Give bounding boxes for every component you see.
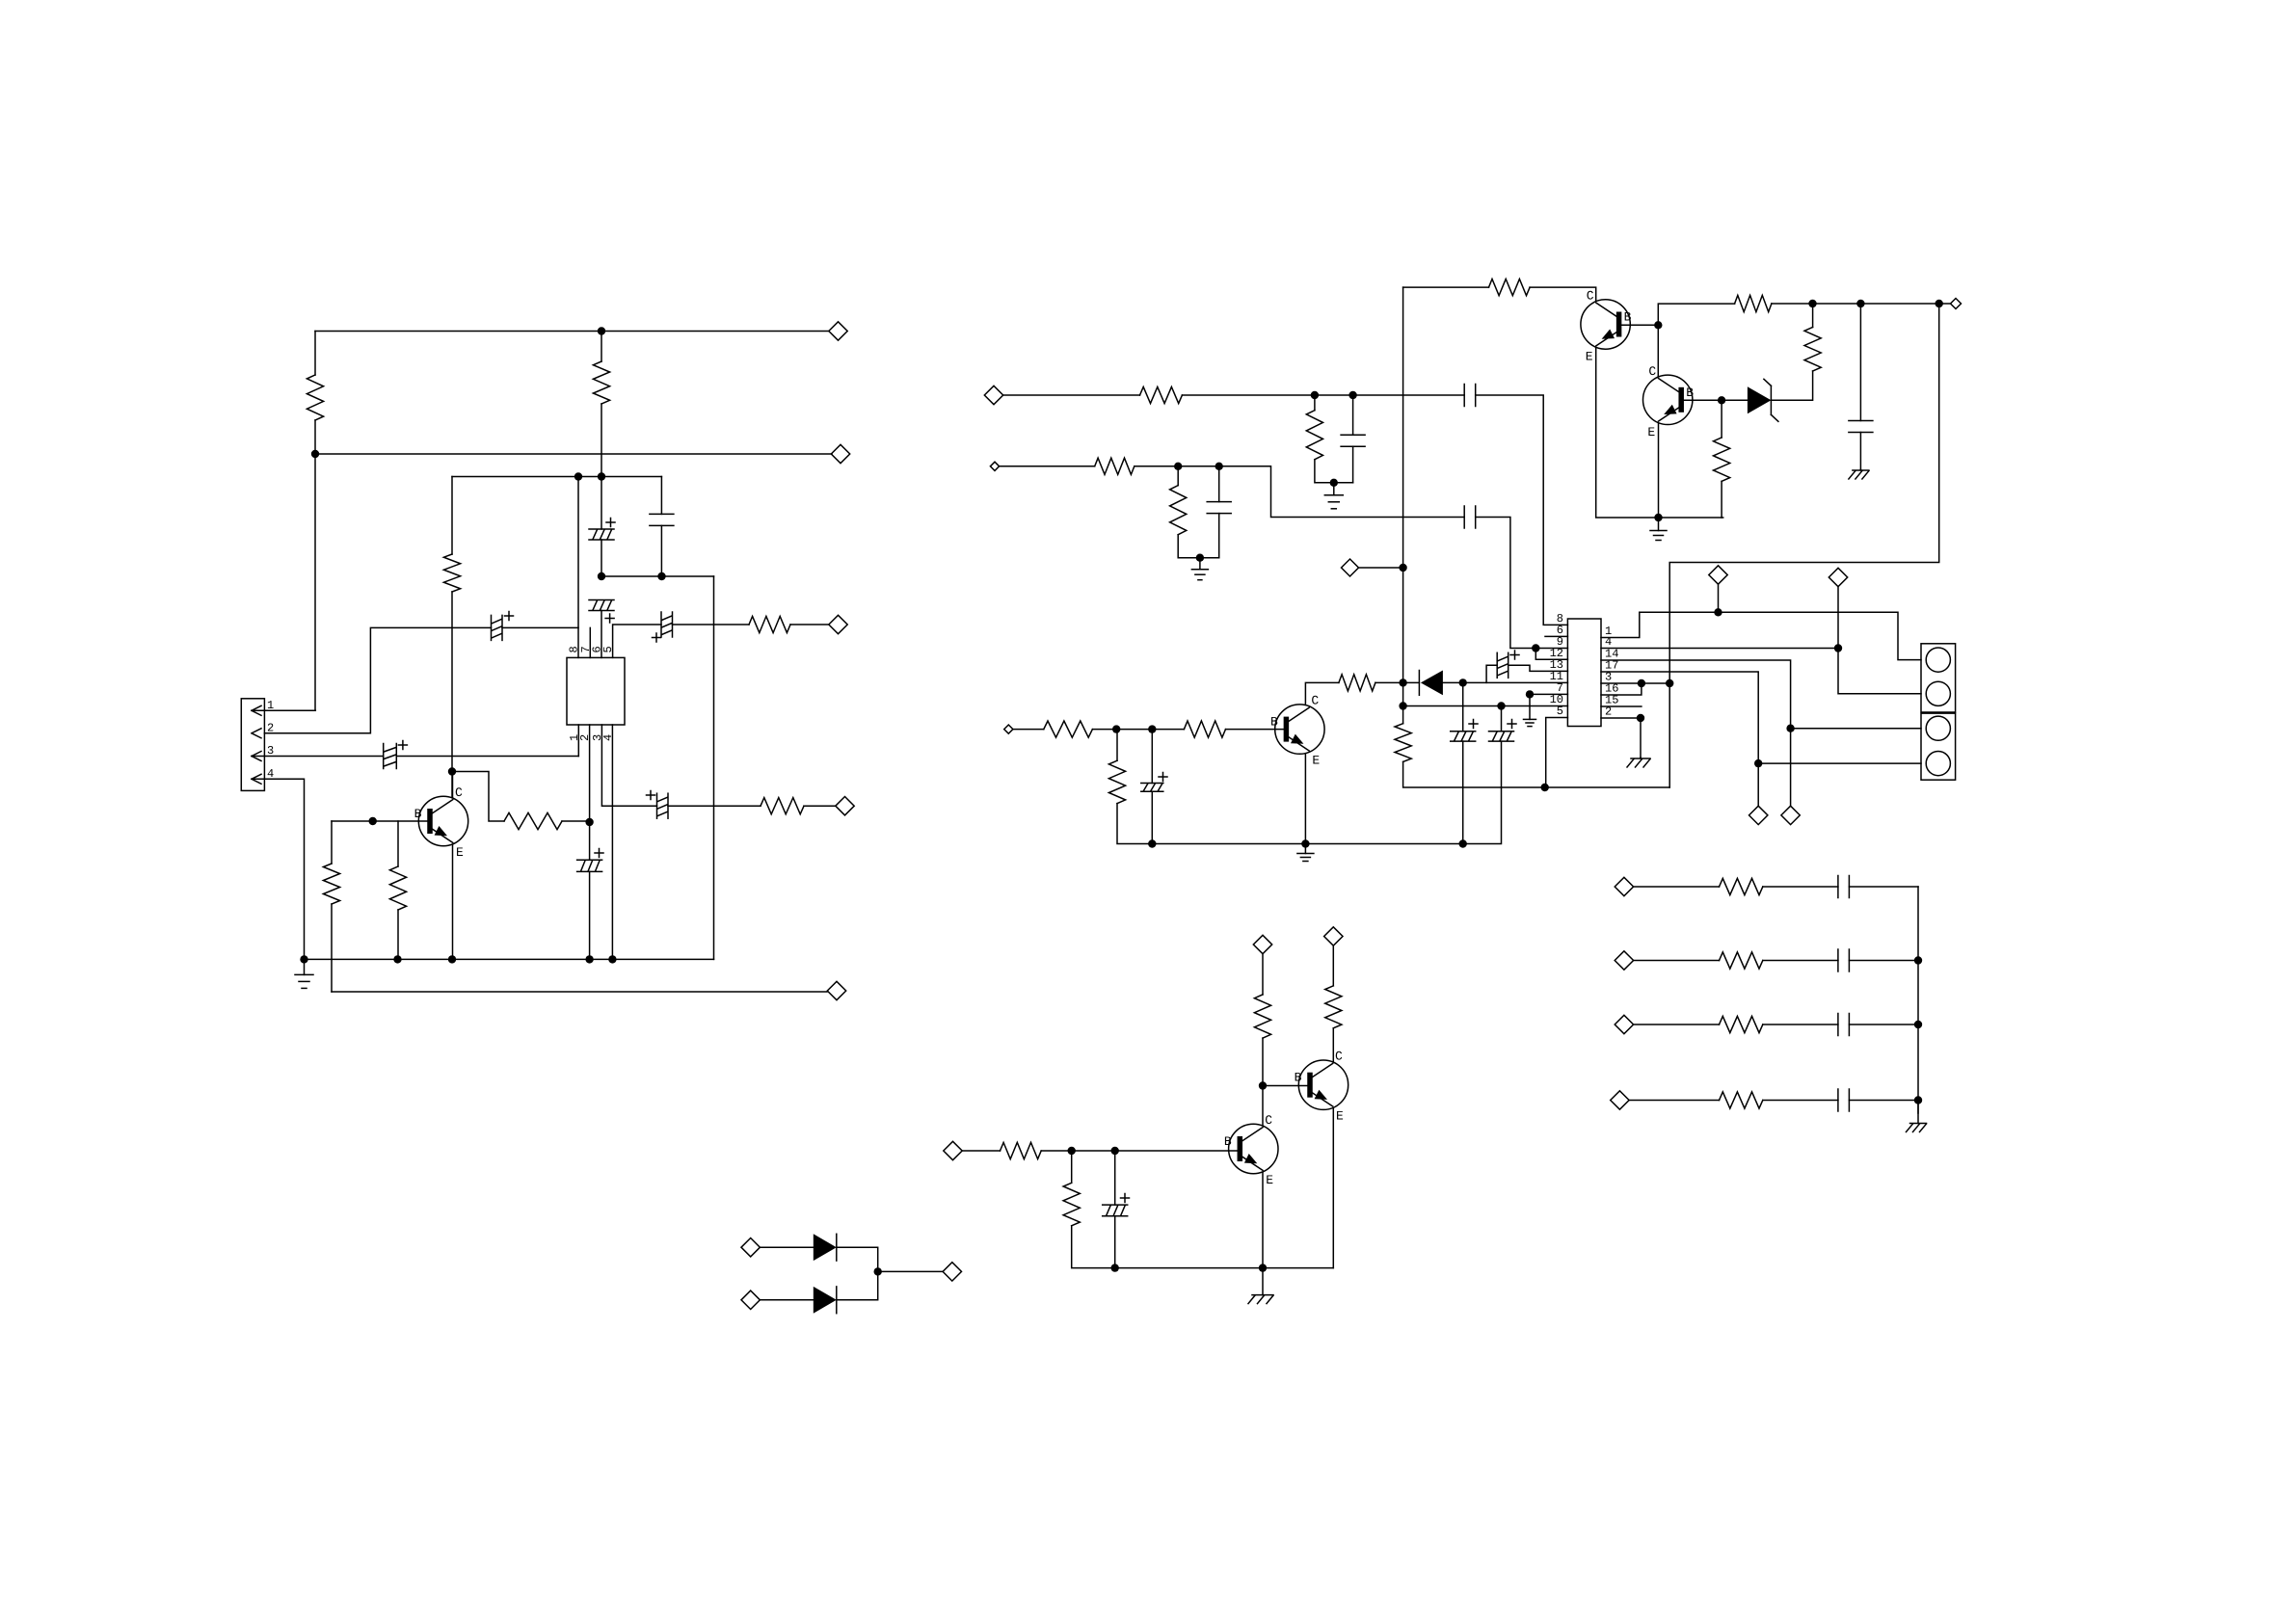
- ground (earth style): [1248, 1268, 1273, 1304]
- resistor R7: [323, 864, 339, 904]
- wire C4 to U1 pin6: [601, 611, 602, 658]
- junction supply / pin3 row: [1666, 679, 1673, 687]
- wire input A: [1003, 394, 1140, 396]
- wire node B to ground rail: [713, 576, 715, 959]
- resistor R19: [1184, 721, 1225, 737]
- junction ground rail / Q1 emitter: [448, 955, 456, 963]
- svg-text:B: B: [1270, 715, 1278, 730]
- junction top rail / R16: [1808, 300, 1816, 307]
- wire: [314, 332, 316, 376]
- resistor R15: [1735, 295, 1772, 311]
- resistor R13: [1395, 724, 1411, 762]
- wire U2 pin16 jog: [1601, 683, 1642, 695]
- wire diamond C: [1359, 567, 1403, 569]
- wire Q3 collector lead: [1657, 325, 1659, 376]
- wire C13 lead: [1859, 304, 1861, 421]
- junction node A: [598, 472, 605, 480]
- junction Q2 base / Q3 collector: [1654, 321, 1662, 329]
- ground: [295, 959, 313, 988]
- resistor R23: [1063, 1183, 1080, 1226]
- junction diode output: [874, 1267, 882, 1275]
- wire node A rail: [452, 476, 661, 478]
- wire R6 to diamond: [804, 805, 836, 807]
- svg-text:C: C: [1265, 1113, 1272, 1128]
- wire C14 to pin11 row: [1486, 665, 1497, 682]
- wire Q2 base: [1618, 324, 1658, 326]
- wire Q2 collector rail: [1403, 286, 1489, 288]
- wire Q5 emitter to bottom rail: [1332, 1108, 1334, 1267]
- wire: [1262, 1038, 1264, 1085]
- ground: [1191, 558, 1208, 580]
- J1 pin 2 arrow: [252, 729, 261, 738]
- resistor R16: [1804, 328, 1821, 372]
- wire C6 to connector pin3: [252, 756, 384, 758]
- junction Q1 collector node: [448, 767, 456, 775]
- capacitor C14 (polarized): [1497, 651, 1519, 678]
- junction pin2 line / R4: [585, 818, 593, 826]
- off-page connector (diamond) diode output: [943, 1263, 961, 1281]
- IC U2 (17-pin body): [1567, 619, 1601, 727]
- wire: [1177, 466, 1179, 486]
- resistor R24: [1254, 995, 1270, 1038]
- resistor R6: [761, 798, 804, 814]
- wire C16 top lead: [1501, 706, 1503, 732]
- off-page connector (diamond) pin17: [1749, 806, 1768, 824]
- off-page connector (diamond) pin14: [1781, 806, 1800, 824]
- off-page connector (small diamond) input C: [1004, 725, 1013, 733]
- wire Q4 collector to Q5 base: [1263, 1085, 1310, 1087]
- junction node B / C1: [657, 572, 665, 580]
- wire diode join: [837, 1247, 877, 1300]
- svg-text:C: C: [455, 785, 463, 800]
- junction Q3 base / zener: [1718, 396, 1725, 404]
- wire: [451, 477, 453, 555]
- junction RC ground node B: [1196, 554, 1204, 562]
- resistor R22: [1001, 1142, 1042, 1158]
- wire Q1 collector lead: [452, 772, 454, 798]
- wire: [1721, 400, 1722, 438]
- transistor Q1: [418, 796, 467, 845]
- capacitor C6 (polarized): [384, 741, 408, 769]
- off-page connector (diamond) bottom of left block: [827, 981, 845, 999]
- junction ground rail / C7: [585, 955, 593, 963]
- wire R7 to bottom rail: [331, 904, 333, 992]
- wire: [331, 821, 333, 864]
- wire U2 pin14 riser: [1601, 660, 1791, 806]
- svg-text:3: 3: [267, 744, 274, 758]
- ground: [1650, 518, 1667, 541]
- capacitor C16 (polarized): [1489, 720, 1517, 742]
- wire: [601, 332, 602, 362]
- wire diode output: [878, 1270, 943, 1272]
- wire supply riser right: [1669, 304, 1939, 787]
- wire: [1763, 1024, 1838, 1025]
- resistor R27: [1720, 952, 1763, 969]
- wire Q6 base: [1226, 729, 1287, 731]
- resistor R8: [389, 866, 406, 910]
- wire: [1763, 960, 1838, 962]
- junction RC ground node: [1330, 479, 1338, 487]
- wire: [601, 477, 602, 530]
- wire: [1763, 886, 1838, 888]
- off-page connector (diamond) C: [1342, 559, 1359, 576]
- capacitor C4 (polarized): [589, 600, 614, 624]
- connector J3 (2-pin): [1921, 713, 1956, 780]
- wire: [1116, 730, 1118, 761]
- wire: [1218, 514, 1220, 558]
- wire: [1849, 960, 1918, 962]
- wire R22 to Q4 base: [1041, 1150, 1240, 1152]
- wire C5 to R5: [673, 624, 750, 625]
- wire zener cathode to R16: [1771, 371, 1812, 400]
- svg-text:E: E: [1266, 1173, 1273, 1187]
- wire RC row 2: [1634, 960, 1720, 962]
- op-amp U1 (8-pin IC body): [567, 657, 625, 725]
- wire C13 to ground: [1859, 433, 1861, 470]
- junction pin11 / C15: [1459, 678, 1467, 686]
- off-page connector (diamond) RC row 2: [1615, 951, 1633, 970]
- capacitor C5 (polarized): [653, 612, 673, 642]
- wire diode to R18: [1375, 681, 1420, 683]
- wire R3 to Q1 collector: [451, 592, 453, 798]
- wire pin1 row to connector row1: [1640, 612, 1921, 659]
- junction pin17 / row4: [1754, 759, 1762, 767]
- wire U2 pin13 to C14: [1508, 665, 1568, 671]
- wire R18 to Q6 collector: [1305, 682, 1339, 705]
- junction bottom rail / C18: [1111, 1264, 1119, 1271]
- resistor R12: [1170, 486, 1187, 535]
- svg-text:E: E: [1336, 1109, 1344, 1124]
- capacitor C19: [1838, 876, 1850, 898]
- capacitor C1: [650, 514, 674, 525]
- diode D3: [814, 1287, 837, 1314]
- wire RC row 3: [1634, 1024, 1720, 1025]
- capacitor C20: [1838, 949, 1850, 971]
- svg-text:E: E: [456, 845, 464, 860]
- junction Q4 collector / Q5 base: [1259, 1081, 1267, 1089]
- capacitor C3 (polarized): [589, 519, 615, 541]
- ground (small): [1297, 844, 1314, 862]
- wire C17 top lead: [1151, 730, 1153, 784]
- wire R12/C12 join: [1178, 535, 1219, 558]
- wire Q2 emitter to ground row: [1596, 348, 1723, 518]
- wire C7 to ground rail: [589, 871, 591, 959]
- J1 pin 3 arrow: [252, 752, 261, 761]
- wire R14 to Q2 collector: [1530, 287, 1596, 300]
- svg-text:B: B: [1224, 1134, 1232, 1149]
- wire Q6 emitter: [1304, 754, 1306, 843]
- wire Q2 base to top rail: [1658, 304, 1734, 325]
- resistor R29: [1720, 1092, 1763, 1108]
- wire Q4 emitter: [1262, 1173, 1264, 1268]
- ground: [1324, 483, 1343, 509]
- junction RC rail row3: [1914, 1021, 1922, 1028]
- wire C15 bottom lead: [1462, 741, 1464, 843]
- off-page connector (diamond) Q4 collector: [1253, 935, 1271, 953]
- wire C18 bottom lead: [1114, 1216, 1116, 1268]
- svg-text:B: B: [1686, 386, 1694, 400]
- junction pin4 / diamond R: [1834, 644, 1842, 652]
- capacitor C15 (polarized): [1451, 720, 1478, 742]
- connector J2 (2-pin): [1921, 644, 1956, 712]
- wire supply riser: [1402, 287, 1404, 724]
- junction input A / R10: [1311, 391, 1319, 399]
- wire: [1218, 466, 1220, 502]
- connector J1 (4-pin): [241, 699, 264, 791]
- capacitor C13: [1849, 421, 1873, 433]
- capacitor C18 (polarized): [1103, 1194, 1130, 1216]
- off-page connector (small diamond) top right: [1951, 299, 1962, 309]
- junction top rail / R2: [598, 327, 605, 334]
- transistor Q3: [1643, 375, 1693, 424]
- wire J1 pin1: [252, 709, 315, 711]
- wire to zener anode: [1722, 399, 1748, 401]
- wire U2 pin11 row: [1442, 681, 1568, 683]
- wire diamond R to connector row2: [1838, 587, 1921, 694]
- capacitor C2 (polarized): [492, 612, 514, 641]
- wire collector to R4: [452, 772, 504, 822]
- wire R11 to C11: [1135, 466, 1464, 518]
- wire top rail: [315, 331, 829, 333]
- off-page connector (diamond) Q5 collector: [1324, 927, 1343, 945]
- wire U2 pin7 stub: [1530, 693, 1567, 695]
- resistor R10: [1306, 411, 1322, 460]
- junction pin3/pin16: [1638, 679, 1645, 687]
- capacitor C8 (polarized): [647, 791, 669, 819]
- wire connector row4: [1758, 762, 1921, 764]
- off-page connector (diamond) RC row 4: [1611, 1091, 1629, 1109]
- wire pin8 riser: [577, 477, 579, 658]
- wire: [601, 540, 602, 576]
- wire C18 top lead: [1114, 1151, 1116, 1205]
- ground (earth style): [1627, 758, 1650, 767]
- wire C11 to U2 pin9: [1476, 518, 1568, 649]
- off-page connector (small diamond) input B: [990, 462, 999, 470]
- wire to D3: [760, 1299, 813, 1301]
- J1 pin 1 arrow: [252, 705, 261, 715]
- junction top rail / C13: [1856, 300, 1864, 307]
- resistor R2: [593, 361, 609, 404]
- junction pin10 / C16: [1497, 702, 1505, 709]
- wire U2 pin4 row: [1601, 648, 1838, 650]
- capacitor C21: [1838, 1014, 1850, 1036]
- resistor R3: [443, 554, 460, 592]
- wire pin2 ground lead: [1640, 718, 1642, 758]
- junction bottom rail / Q4 emitter: [1259, 1264, 1267, 1271]
- ground (small): [1524, 694, 1536, 726]
- wire U1 pin3 to C8: [601, 725, 656, 806]
- wire C17 bottom lead: [1151, 791, 1153, 843]
- off-page connector (diamond) input D: [944, 1141, 962, 1159]
- wire C9 to U2 pin8: [1476, 395, 1568, 625]
- capacitor C7 (polarized): [577, 849, 603, 872]
- junction RC rail row2: [1914, 956, 1922, 964]
- wire R17 to ground row: [1721, 481, 1722, 518]
- junction ground rail / pin4 wire: [300, 955, 307, 963]
- wire mid rail: [315, 453, 832, 455]
- wire R25 to diamond: [1332, 945, 1334, 986]
- wire: [1092, 729, 1116, 731]
- wire pin1 row to C6: [396, 756, 578, 758]
- transistor Q2: [1581, 300, 1630, 349]
- wire Q4 collector: [1262, 1086, 1264, 1126]
- wire: [1352, 395, 1354, 435]
- wire U1 pin1 stub down: [577, 725, 579, 757]
- wire U1 pin5 to C5: [613, 625, 661, 657]
- wire U2 pin2 stub: [1601, 717, 1641, 719]
- wire ground rail: [305, 958, 714, 960]
- wire Q1 base: [332, 820, 430, 822]
- junction ground row: [1654, 514, 1662, 521]
- wire: [1849, 1100, 1918, 1102]
- off-page connector (diamond) right of R6: [836, 797, 854, 815]
- wire: [1314, 395, 1316, 411]
- connector J3 circle 1: [1926, 716, 1950, 740]
- connector J2 circle 1: [1926, 648, 1950, 672]
- off-page connector (diamond) mid rail: [831, 444, 849, 463]
- svg-text:C: C: [1648, 364, 1656, 379]
- capacitor C17 (polarized): [1141, 773, 1167, 792]
- resistor R28: [1720, 1016, 1763, 1032]
- svg-text:C: C: [1335, 1050, 1343, 1064]
- wire: [660, 477, 662, 515]
- wire R23 to bottom rail: [1072, 1226, 1334, 1268]
- off-page connector (diamond) diode input 2: [741, 1290, 760, 1309]
- wire U2 pin3 row: [1601, 682, 1669, 684]
- junction pin2 ground: [1637, 714, 1644, 722]
- off-page connector (diamond) input A: [984, 386, 1002, 404]
- junction input B / R12: [1174, 463, 1182, 470]
- resistor R17: [1714, 438, 1730, 481]
- wire R9 to C9: [1182, 394, 1464, 396]
- junction bottom rail / Q6 emitter: [1301, 839, 1309, 847]
- resistor R14: [1489, 279, 1531, 296]
- wire R5 to diamond: [790, 624, 829, 625]
- wire connector pin2 to C2: [264, 627, 491, 732]
- off-page connector (diamond) RC row 1: [1615, 877, 1633, 895]
- resistor R25: [1325, 986, 1342, 1028]
- connector J3 circle 2: [1926, 752, 1950, 776]
- wire R16 to top rail: [1812, 304, 1814, 328]
- junction node A / pin8 riser: [574, 472, 582, 480]
- wire U1 pin2 down: [589, 725, 591, 860]
- resistor R11: [1095, 458, 1135, 474]
- wire RC row 1: [1634, 886, 1720, 888]
- wire Q3 base: [1682, 399, 1722, 401]
- wire: [660, 525, 662, 576]
- svg-text:E: E: [1647, 425, 1655, 439]
- wire R21 to bottom rail: [1117, 804, 1305, 844]
- wire J1 pin4 to ground: [252, 779, 305, 959]
- wire R13 to supply corner: [1403, 761, 1670, 787]
- junction RC rail row4: [1914, 1096, 1922, 1104]
- junction riser / diamond C: [1399, 564, 1406, 572]
- junction pin9/pin12: [1532, 644, 1539, 652]
- wire: [1071, 1151, 1073, 1183]
- off-page connector (diamond) right of C5/R5: [829, 615, 847, 633]
- wire node B rail: [601, 575, 714, 577]
- wire RC row 4: [1629, 1100, 1719, 1102]
- junction bottom rail / C17: [1148, 839, 1156, 847]
- svg-text:5: 5: [601, 646, 615, 652]
- capacitor C22: [1838, 1089, 1850, 1111]
- wire C16 to bottom rail: [1305, 741, 1501, 843]
- off-page connector (diamond) diode input 1: [741, 1238, 760, 1257]
- ground (earth style): [1907, 1101, 1927, 1132]
- wire C8 to R6: [668, 805, 761, 807]
- capacitor C9: [1464, 385, 1476, 407]
- wire C15 top lead: [1462, 682, 1464, 731]
- wire U1 pin7 stub: [589, 627, 591, 657]
- wire U2 pin5 to supply: [1546, 718, 1568, 788]
- resistor R9: [1140, 386, 1183, 403]
- wire R24 to diamond: [1262, 954, 1264, 995]
- wire U1 pin4 to ground rail: [611, 725, 613, 959]
- wire Q5 collector: [1332, 1028, 1334, 1061]
- capacitor C12: [1207, 502, 1231, 514]
- svg-text:B: B: [1624, 310, 1632, 325]
- transistor Q6: [1275, 705, 1324, 754]
- resistor R4: [504, 812, 562, 829]
- wire input B: [1000, 466, 1095, 467]
- transistor Q5: [1298, 1060, 1348, 1109]
- svg-text:E: E: [1586, 350, 1593, 364]
- svg-text:E: E: [1312, 754, 1320, 768]
- wire R1 to connector pin1: [314, 420, 316, 710]
- zener diode ZD1: [1748, 379, 1778, 421]
- junction base node: [369, 817, 377, 825]
- wire: [1013, 729, 1044, 731]
- wire U2 pin15 stub: [1601, 705, 1642, 707]
- wire R2 down (crosses mid rail): [601, 404, 602, 477]
- resistor R20: [1044, 721, 1093, 737]
- svg-text:C: C: [1587, 289, 1594, 304]
- wire U2 pin10 row: [1403, 705, 1568, 707]
- junction Q4 base node / C18: [1111, 1147, 1119, 1155]
- diode D2: [814, 1234, 837, 1261]
- wire Q1 emitter to ground rail: [452, 844, 454, 959]
- off-page connector (diamond) top-right of left block: [829, 322, 847, 340]
- svg-text:C: C: [1311, 694, 1319, 708]
- wire: [1763, 1100, 1838, 1102]
- wire: [1116, 729, 1184, 731]
- junction supply / pin5 riser: [1541, 784, 1549, 791]
- wire R10/C10 join: [1315, 460, 1353, 483]
- wire: [1352, 446, 1354, 483]
- junction node B: [598, 572, 605, 580]
- junction riser / pin10 row: [1399, 702, 1406, 709]
- junction R1 / mid rail: [311, 450, 319, 458]
- capacitor C11: [1464, 506, 1476, 528]
- junction row1 / diamond: [1714, 608, 1722, 616]
- transistor Q4: [1229, 1124, 1278, 1173]
- wire top rail right: [1772, 303, 1950, 305]
- off-page connector (diamond) above connector L: [1709, 566, 1727, 584]
- wire: [1849, 1024, 1918, 1025]
- wire RC common rail: [1917, 887, 1919, 1113]
- wire pin12 jog: [1535, 649, 1567, 660]
- J1 pin 4 arrow: [252, 774, 261, 784]
- wire bottom rail: [332, 991, 827, 993]
- ground (earth style): [1849, 469, 1869, 479]
- wire Q3 emitter to ground: [1658, 424, 1660, 519]
- wire to D2: [760, 1246, 813, 1248]
- junction Q6 base node / R21: [1112, 725, 1120, 732]
- resistor R18: [1339, 675, 1375, 691]
- wire diamond stem: [1718, 584, 1720, 612]
- junction Q4 base node / R23: [1068, 1147, 1076, 1155]
- junction top rail / supply riser: [1936, 300, 1943, 307]
